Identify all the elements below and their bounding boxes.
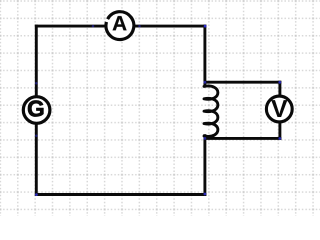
node junction coil bottom: [204, 137, 207, 140]
node bottom-right corner: [204, 193, 207, 196]
wire bottom (bottom-left corner to bottom-right corner): [35, 193, 207, 196]
wire top (generator to ammeter to top-right corner): [35, 25, 207, 28]
node junction coil top: [204, 81, 207, 84]
node ammeter right terminal: [138, 25, 141, 28]
wire voltmeter branch top vertical (to voltmeter): [278, 81, 281, 98]
voltmeter label V: [271, 100, 287, 117]
ammeter A body (circle with gap notch): [106, 12, 134, 40]
wire right upper (top-right corner to coil top junction): [203, 25, 206, 86]
node top-right corner: [204, 25, 207, 28]
ammeter label A: [113, 16, 127, 30]
wire right lower (coil bottom junction to bottom-right corner): [203, 134, 206, 196]
wire voltmeter branch bottom vertical (from voltmeter): [278, 121, 281, 140]
node generator bottom terminal: [35, 134, 38, 137]
wire left (top-left corner through generator to bottom-left corner): [35, 25, 38, 196]
wire voltmeter branch top horizontal: [205, 81, 281, 84]
wire voltmeter branch bottom horizontal: [205, 137, 281, 140]
voltmeter V circle: [266, 96, 292, 122]
node branch top-right corner: [278, 81, 281, 84]
generator label G: [28, 101, 43, 117]
node ammeter left terminal: [92, 25, 95, 28]
node branch bottom-right corner: [278, 137, 281, 140]
generator G circle: [23, 97, 50, 124]
node generator top terminal: [35, 82, 38, 85]
inductor L coil: [204, 86, 218, 136]
node bottom-left corner: [35, 193, 38, 196]
